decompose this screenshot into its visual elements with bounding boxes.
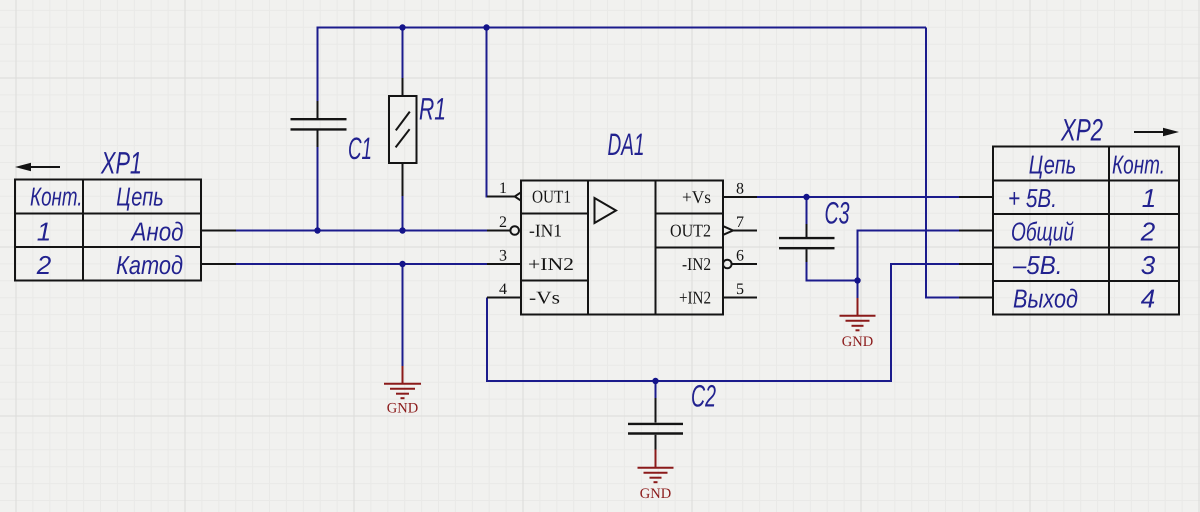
svg-text:XP2: XP2 <box>1060 113 1103 148</box>
svg-text:C3: C3 <box>825 196 850 231</box>
svg-text:1: 1 <box>499 180 507 197</box>
svg-text:-IN2: -IN2 <box>682 254 711 274</box>
wire -Vs net: DA1 pin 4 down, across bottom, up to XP2 -5В <box>487 264 960 381</box>
wire R1 bottom lead to Анод net <box>402 194 404 231</box>
node: top rail / R1 junction <box>399 24 405 30</box>
ground GND under C2 <box>638 450 674 483</box>
wire C1 bottom lead to Анод net <box>317 146 319 231</box>
DA1 pin 6 (-IN2) <box>723 260 757 269</box>
svg-text:+IN2: +IN2 <box>679 288 711 308</box>
svg-text:Цепь: Цепь <box>116 181 164 211</box>
DA1 pin 5 (+IN2) <box>723 297 757 299</box>
svg-text:GND: GND <box>387 401 418 417</box>
DA1 pin 4 (-Vs) <box>487 297 521 299</box>
svg-text:OUT2: OUT2 <box>670 221 711 241</box>
svg-text:3: 3 <box>499 248 507 265</box>
svg-text:DA1: DA1 <box>608 127 645 162</box>
svg-text:Общий: Общий <box>1011 216 1074 246</box>
XP2 direction arrow <box>1134 128 1179 136</box>
node: Анод / R1 junction <box>399 227 405 233</box>
svg-text:3: 3 <box>1141 250 1156 280</box>
svg-text:OUT1: OUT1 <box>532 187 571 207</box>
resistor R1 (photoresistor body) <box>389 78 417 196</box>
node: top rail / pin1 drop junction <box>483 24 489 30</box>
svg-text:R1: R1 <box>419 92 446 127</box>
svg-text:-Vs: -Vs <box>529 288 560 308</box>
node: Катод / GND junction <box>399 261 405 267</box>
node: -Vs net / C2 junction <box>652 378 658 384</box>
svg-text:C1: C1 <box>348 131 372 166</box>
svg-text:Конт.: Конт. <box>30 181 83 211</box>
node: Общий / C3 / GND junction <box>854 277 860 283</box>
svg-text:–5В.: –5В. <box>1012 250 1062 280</box>
connector XP1 table <box>15 180 201 281</box>
XP1 direction arrow <box>15 163 60 171</box>
svg-text:8: 8 <box>736 181 744 198</box>
capacitor C2 <box>628 398 683 450</box>
svg-text:XP1: XP1 <box>100 146 142 181</box>
svg-text:Катод: Катод <box>116 250 183 280</box>
ground GND under Катод net <box>384 366 421 398</box>
wire +Vs net: DA1 pin 8 to XP2 +5В <box>754 196 960 198</box>
svg-text:1: 1 <box>1142 183 1156 213</box>
XP1 pin 1 stub <box>201 230 236 232</box>
XP2 pin 3 stub <box>959 263 993 265</box>
XP1 pin 2 stub <box>201 263 236 265</box>
node: +Vs net / C3 junction <box>803 194 809 200</box>
XP2 pin 1 stub <box>959 196 993 198</box>
svg-text:Выход: Выход <box>1013 283 1078 313</box>
svg-text:2: 2 <box>499 214 507 231</box>
svg-text:-IN1: -IN1 <box>529 221 562 241</box>
wire Общий net: ground node up to XP2 Общий <box>858 231 961 281</box>
DA1 pin 7 (OUT2) <box>724 226 758 234</box>
wire C1 top lead <box>317 27 319 104</box>
ground GND at Общий node <box>840 298 876 330</box>
svg-text:Цепь: Цепь <box>1029 149 1077 179</box>
svg-text:2: 2 <box>1140 216 1156 246</box>
wire Катод net: XP1 pin2 to DA1 pin3 <box>234 263 490 265</box>
svg-text:GND: GND <box>640 486 671 502</box>
svg-text:C2: C2 <box>691 379 716 414</box>
svg-text:Анод: Анод <box>130 216 184 246</box>
svg-text:+IN2: +IN2 <box>528 254 574 274</box>
wire right drop from top rail to XP2 Выход <box>926 28 960 298</box>
wire C3 bottom lead to ground node <box>807 260 858 281</box>
svg-text:2: 2 <box>36 250 52 280</box>
svg-text:4: 4 <box>499 281 507 298</box>
svg-text:1: 1 <box>37 216 51 246</box>
wire R1 top lead <box>402 27 404 81</box>
wire top rail from C1 to XP2 drop <box>318 27 927 29</box>
DA1 pin 1 (OUT1) <box>487 192 521 200</box>
svg-text:6: 6 <box>736 248 744 265</box>
XP2 pin 2 stub <box>959 230 993 232</box>
DA1 pin 2 (-IN1) <box>487 226 519 235</box>
wire C3 top lead <box>806 197 808 226</box>
svg-text:GND: GND <box>842 334 873 350</box>
capacitor C3 <box>779 224 835 262</box>
op-amp triangle symbol <box>595 198 617 223</box>
DA1 pin 3 (+IN2) <box>487 263 521 265</box>
svg-text:Конт.: Конт. <box>1112 149 1165 179</box>
op-amp DA1 <box>521 181 723 315</box>
wire drop from top rail to DA1 pin 1 <box>487 28 497 197</box>
svg-text:5: 5 <box>736 281 744 298</box>
wire C2 top lead <box>655 381 657 400</box>
svg-text:+Vs: +Vs <box>682 187 711 207</box>
svg-text:+ 5В.: + 5В. <box>1008 183 1057 213</box>
capacitor C1 <box>291 101 347 147</box>
connector XP2 table <box>993 147 1179 315</box>
XP2 pin 4 stub <box>959 297 993 299</box>
node: Анод / C1 junction <box>314 227 320 233</box>
svg-text:7: 7 <box>736 214 744 231</box>
wire Катод net drop to GND <box>402 264 404 367</box>
wire ground node stem <box>857 281 859 301</box>
svg-text:4: 4 <box>1141 283 1155 313</box>
wire Анод net: XP1 pin1 to DA1 pin2 <box>234 230 490 232</box>
DA1 pin 8 (+Vs) <box>723 196 757 198</box>
